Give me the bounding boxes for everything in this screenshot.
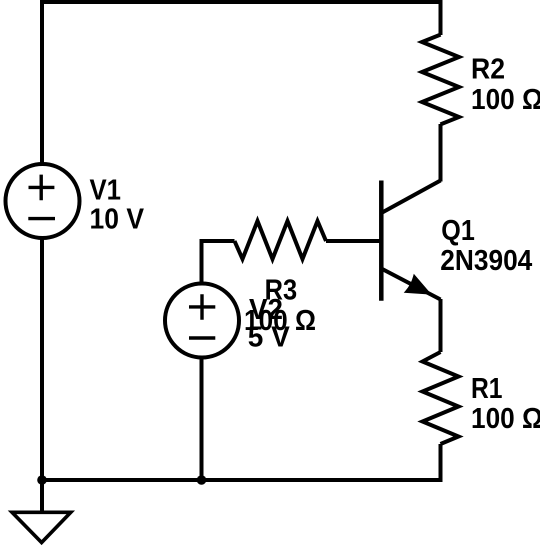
transistor Q1 base bar (379, 181, 384, 301)
node junction dot left (37, 475, 47, 485)
resistor R2 (422, 35, 459, 125)
svg-text:R1: R1 (471, 373, 503, 405)
wire top rail (42, 2, 441, 163)
resistor R1 (423, 352, 459, 444)
resistor R3 (235, 221, 327, 259)
svg-text:100 Ω: 100 Ω (471, 84, 540, 116)
wire R3 left to V2 top (202, 241, 235, 282)
wire ground lead (40, 480, 44, 513)
wire R1 to bottom rail (439, 444, 443, 482)
svg-text:V1: V1 (90, 175, 122, 207)
voltage source V1 circle (6, 164, 80, 238)
svg-text:R2: R2 (471, 54, 505, 86)
svg-text:10 V: 10 V (90, 204, 145, 236)
voltage source V2 plus sign (189, 294, 215, 320)
voltage source V2 circle (165, 284, 239, 358)
voltage source V1 minus sign (28, 217, 55, 220)
voltage source V1 plus sign (29, 175, 55, 201)
voltage source V2 minus sign (189, 336, 215, 339)
wire V2 bottom lead (200, 359, 204, 480)
svg-text:100 Ω: 100 Ω (471, 403, 540, 435)
svg-text:5 V: 5 V (248, 322, 291, 354)
wire V1 bottom lead (40, 239, 44, 480)
transistor Q1 emitter arrow (407, 277, 428, 293)
wire emitter to R1 (439, 299, 443, 352)
wire R2 to collector (439, 124, 443, 182)
node junction dot V2 (197, 475, 207, 485)
ground symbol (12, 512, 71, 542)
transistor Q1 collector lead (381, 181, 440, 214)
transistor Q1 emitter lead (381, 269, 440, 300)
wire base (326, 239, 381, 243)
wire bottom rail (42, 478, 441, 482)
svg-text:2N3904: 2N3904 (440, 245, 532, 277)
svg-text:Q1: Q1 (441, 215, 475, 247)
